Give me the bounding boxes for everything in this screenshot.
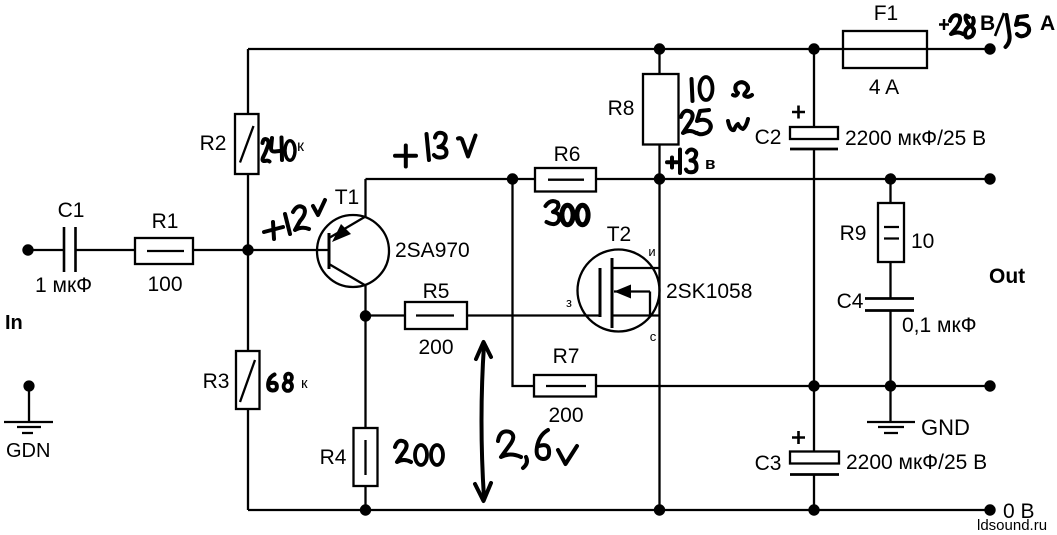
node R6 left / R7 left [507,173,518,184]
label 0 В [1003,500,1035,523]
node C2-C3 mid on GND rail [808,380,819,391]
svg-text:с: с [650,329,657,344]
resistor R2 [200,114,259,174]
svg-text:100: 100 [147,273,182,296]
node R1-R2-R3-base junction [242,244,253,255]
node R4 bottom on 0V rail [360,504,371,515]
transistor T2 2SK1058 [566,223,752,344]
wire top +28V rail [248,48,990,50]
resistor R5 [405,280,467,359]
resistor R4 [320,428,378,486]
svg-text:10: 10 [911,230,934,253]
value 200 handwritten (R4) [395,441,443,465]
wire R6 left down to R7 left [513,179,535,386]
node T2 column on 0V rail [654,504,665,515]
resistor R8 [608,74,679,145]
resistor R9 [840,203,935,262]
wire R1 to node [193,249,248,251]
svg-text:2200 мкФ/25 В: 2200 мкФ/25 В [846,451,987,474]
resistor R3 [203,351,260,409]
wire T2 drain column to bottom rail [658,179,660,510]
svg-text:F1: F1 [874,2,899,25]
wire R7 right to GND rail [596,385,990,387]
node input terminal [22,244,33,255]
terminal GND rail right [984,380,995,391]
svg-text:и: и [648,244,655,259]
svg-text:200: 200 [548,404,583,427]
wire T1 emitter up [364,179,366,217]
value 240k handwritten [263,138,306,162]
resistor R1 [135,210,193,296]
wire C3 bottom to 0V rail [813,475,815,511]
svg-text:R7: R7 [553,345,580,368]
svg-text:T2: T2 [607,223,632,246]
value 10 Ohm 25w handwritten [681,77,752,134]
annotation 2,6v text handwritten [498,430,577,468]
resistor R7 [534,345,596,427]
svg-text:R3: R3 [203,370,230,393]
node In label [5,312,23,334]
wire R9 top [889,179,891,203]
ground GDN [4,380,53,462]
node R9 top [885,173,896,184]
node R8 bottom +13 node [654,173,665,184]
node C4 bottom on GND rail [885,380,896,391]
capacitor C2 [755,106,987,151]
svg-text:In: In [5,312,23,334]
node T1 collector / R4 / R5 [360,310,371,321]
fuse F1 [843,2,927,99]
node C3 bottom on 0V rail [808,504,819,515]
svg-text:C1: C1 [58,199,85,222]
svg-text:2SA970: 2SA970 [395,239,470,262]
svg-text:в: в [705,154,715,173]
wire node to R5 [366,314,406,316]
wire +13V rail right part [596,178,990,180]
wire bottom 0V rail [248,509,990,511]
wire +13V rail left part [366,178,536,180]
svg-text:GND: GND [921,415,970,440]
svg-text:R8: R8 [608,97,635,120]
svg-text:2SK1058: 2SK1058 [666,280,752,303]
label +28 В/1,5 А [939,12,1055,47]
svg-text:GDN: GDN [6,440,50,462]
svg-text:1 мкФ: 1 мкФ [35,274,92,297]
annotation +13 в handwritten [667,150,715,174]
wire C1 to R1 [76,249,136,251]
svg-text:0,1 мкФ: 0,1 мкФ [902,314,977,337]
svg-text:R4: R4 [320,446,347,469]
wire R8 bottom to +13 node [658,145,660,180]
wire R3 bottom to bottom rail corner [247,409,249,510]
node C2 top on +28 rail [808,43,819,54]
svg-text:C2: C2 [755,126,782,149]
svg-text:А: А [1040,12,1055,35]
svg-text:з: з [566,295,572,310]
capacitor C3 [755,431,988,475]
wire R8 top [658,49,660,74]
svg-text:200: 200 [418,336,453,359]
node R8 top on +28 rail [654,43,665,54]
capacitor C1 [35,199,92,297]
annotation 2,6V arrow handwritten [475,342,491,501]
annotation +13V handwritten [395,133,476,167]
svg-text:к: к [297,138,305,155]
svg-text:4 A: 4 A [869,76,899,99]
wire R2 bottom to input node [247,174,249,250]
wire node to R4 [364,316,366,428]
wire R9 to C4 [889,262,891,299]
value 68k handwritten [268,374,308,392]
label ldsound.ru watermark [977,517,1047,534]
svg-text:В: В [980,12,995,35]
svg-text:к: к [301,375,308,392]
wire C4 to GND rail [889,311,891,387]
capacitor C4 [837,290,977,337]
annotation +12V handwritten [264,200,325,239]
svg-text:T1: T1 [335,186,360,209]
svg-text:R9: R9 [840,222,867,245]
value 300 handwritten [546,201,589,225]
resistor R6 [535,143,596,192]
wire input node to R3 top [247,250,249,351]
wire left column R2 top [247,49,249,114]
svg-text:R6: R6 [554,143,581,166]
wire C2 top [813,49,815,127]
terminal +28V [984,43,995,54]
svg-text:2200 мкФ/25 В: 2200 мкФ/25 В [845,127,986,150]
svg-text:C3: C3 [755,452,782,475]
svg-text:C4: C4 [837,290,864,313]
wire R5 to T2 gate [467,314,600,316]
wire T1 collector down to node [364,286,366,317]
svg-text:Out: Out [989,265,1025,288]
wire GND node to C3 [813,386,815,452]
svg-text:ldsound.ru: ldsound.ru [977,517,1047,534]
wire node to T1 base [248,249,329,251]
terminal Out [984,173,995,184]
wire R4 to bottom rail [364,486,366,510]
wire input terminal to C1 [28,249,64,251]
wire C2 bottom to GND node [813,149,815,386]
label Out [989,265,1025,288]
svg-text:R2: R2 [200,132,227,155]
svg-text:R5: R5 [423,280,450,303]
svg-text:R1: R1 [152,210,179,233]
ground GND [867,386,970,440]
terminal 0V [984,504,995,515]
transistor T1 2SA970 [317,186,470,287]
